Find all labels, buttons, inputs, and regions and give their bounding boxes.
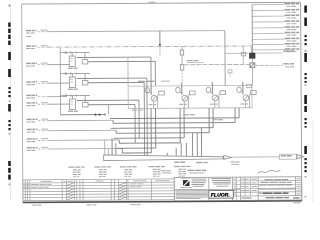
svg-text:FLUOR.: FLUOR. xyxy=(211,192,230,198)
